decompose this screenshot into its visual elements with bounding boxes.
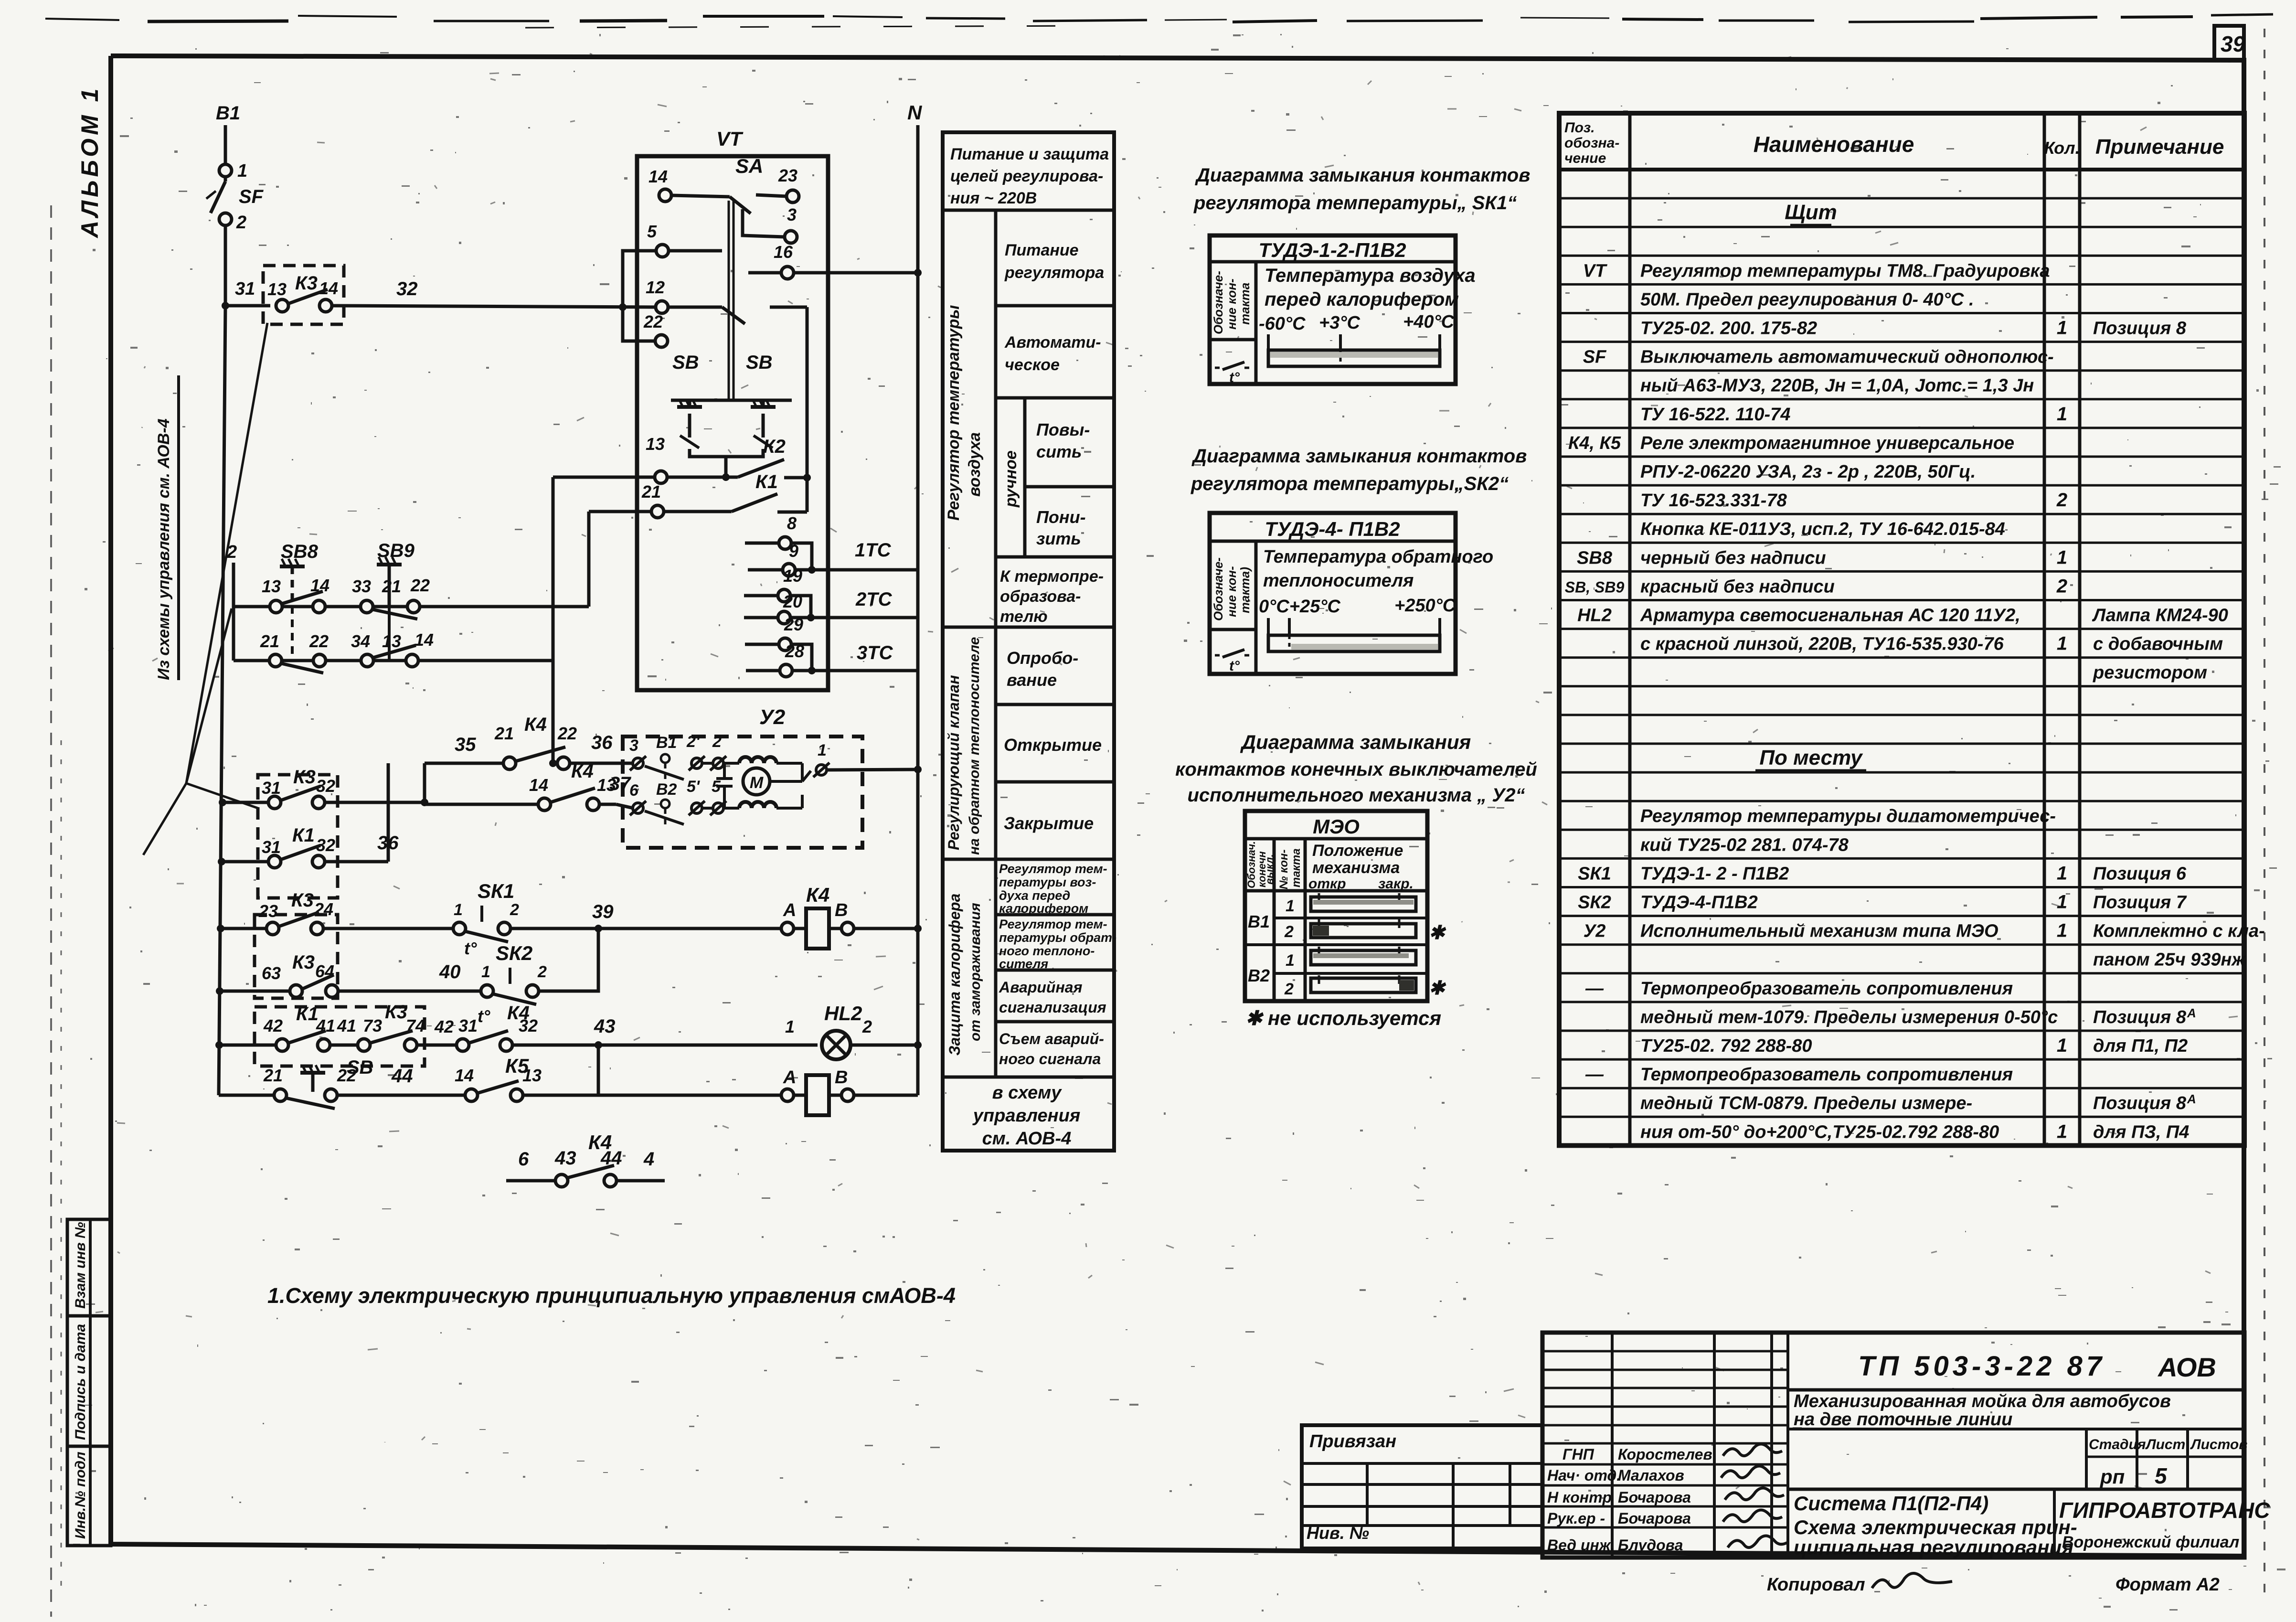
svg-text:К3: К3 — [385, 1002, 407, 1023]
wire left bus lower — [219, 306, 225, 1095]
svg-text:ТП 503-3-22 87: ТП 503-3-22 87 — [1858, 1351, 2105, 1382]
svg-text:В: В — [835, 900, 848, 920]
svg-text:А: А — [783, 900, 796, 920]
svg-text:для П1, П2: для П1, П2 — [2093, 1036, 2188, 1056]
svg-text:32: 32 — [396, 278, 418, 299]
svg-text:43: 43 — [554, 1148, 576, 1169]
svg-text:2ТС: 2ТС — [855, 589, 893, 610]
svg-text:чение: чение — [1564, 150, 1606, 166]
svg-text:21: 21 — [494, 724, 514, 743]
svg-text:К1: К1 — [292, 825, 315, 846]
svg-text:ния ~ 220В: ния ~ 220В — [950, 189, 1037, 207]
svg-text:VT: VT — [716, 128, 744, 150]
svg-text:5': 5' — [687, 778, 701, 796]
svg-text:Опробо-: Опробо- — [1007, 648, 1078, 668]
svg-text:5: 5 — [2155, 1463, 2168, 1488]
wire row K5 left — [219, 1094, 274, 1097]
svg-text:1: 1 — [454, 901, 463, 919]
svg-text:43: 43 — [594, 1016, 616, 1037]
capacitor — [716, 777, 733, 780]
svg-text:ГНП: ГНП — [1563, 1446, 1594, 1463]
svg-text:1: 1 — [237, 161, 247, 181]
svg-text:Система П1(П2-П4): Система П1(П2-П4) — [1794, 1492, 1988, 1515]
svg-text:✱ не используется: ✱ не используется — [1245, 1007, 1441, 1029]
svg-text:образова-: образова- — [1000, 587, 1081, 606]
MEO bar B1-1 — [1311, 897, 1416, 911]
relay K3 dashed enclosure top — [263, 266, 344, 324]
svg-text:Из схемы управления см. АОВ-4: Из схемы управления см. АОВ-4 — [155, 418, 173, 680]
svg-text:14: 14 — [415, 630, 434, 650]
wire row1 to node — [776, 762, 802, 765]
junction 32-12 — [619, 303, 627, 311]
svg-text:По месту: По месту — [1759, 746, 1863, 769]
svg-text:Автомати-: Автомати- — [1004, 333, 1101, 352]
svg-text:Съем аварий-: Съем аварий- — [999, 1030, 1104, 1047]
svg-text:откр: откр — [1308, 876, 1346, 892]
svg-text:Обозначе-: Обозначе- — [1211, 557, 1225, 621]
svg-text:—: — — [1585, 979, 1604, 999]
svg-text:SК1: SК1 — [1578, 864, 1611, 884]
svg-text:-60°С: -60°С — [1259, 314, 1306, 334]
svg-text:медный тем-1079. Пределы измер: медный тем-1079. Пределы измерения 0-50°… — [1640, 1007, 2058, 1027]
wire 16 to N — [748, 271, 781, 275]
svg-text:Механизированная мойка для а: Механизированная мойка для автобусов — [1794, 1391, 2171, 1411]
svg-text:1: 1 — [2057, 404, 2067, 425]
svg-text:ние кон-: ние кон- — [1224, 278, 1239, 330]
svg-text:Открытие: Открытие — [1004, 735, 1102, 755]
svg-text:39: 39 — [592, 901, 614, 922]
svg-text:Регулятор температуры ТМ8. Гра: Регулятор температуры ТМ8. Градуировка — [1640, 261, 2050, 281]
svg-text:63: 63 — [262, 963, 281, 983]
svg-text:Нач· отд.: Нач· отд. — [1547, 1467, 1621, 1484]
svg-text:3ТС: 3ТС — [857, 642, 893, 663]
svg-text:3: 3 — [787, 205, 797, 224]
svg-text:Лист: Лист — [2145, 1437, 2185, 1452]
SK2 closing bar — [1268, 635, 1440, 651]
svg-text:28: 28 — [785, 641, 804, 661]
svg-text:Лампа КМ24-90: Лампа КМ24-90 — [2092, 606, 2228, 626]
svg-text:К4, К5: К4, К5 — [1568, 433, 1621, 453]
svg-text:39: 39 — [2221, 32, 2245, 56]
wire 21 row — [589, 510, 651, 513]
regulator VT enclosure — [637, 156, 828, 690]
svg-text:N: N — [907, 101, 923, 124]
title block organization — [2053, 1489, 2056, 1558]
motor winding 2 — [739, 802, 776, 808]
svg-text:Питание: Питание — [1005, 241, 1079, 259]
signature scribbles — [1723, 1444, 1782, 1456]
svg-text:Диаграмма замыкания: Диаграмма замыкания — [1240, 731, 1471, 753]
svg-text:с красной линзой, 220В, ТУ1: с красной линзой, 220В, ТУ16-535.930-76 — [1640, 634, 2004, 654]
svg-text:73: 73 — [363, 1016, 382, 1035]
svg-text:Реле электромагнитное универс: Реле электромагнитное универсальное — [1640, 433, 2014, 453]
svg-text:Копировал: Копировал — [1767, 1575, 1865, 1595]
wire B1 drop — [224, 125, 227, 164]
svg-text:Коростелев: Коростелев — [1618, 1446, 1712, 1463]
svg-text:1.Схему электрическую принципи: 1.Схему электрическую принципиальную упр… — [267, 1283, 956, 1308]
wire 13 row — [553, 476, 655, 479]
svg-text:3: 3 — [629, 736, 638, 755]
svg-text:Регулирующий клапан: Регулирующий клапан — [945, 675, 962, 850]
svg-text:1: 1 — [1286, 951, 1295, 970]
svg-text:36: 36 — [591, 732, 613, 753]
svg-text:20: 20 — [783, 592, 802, 611]
svg-text:Диаграмма замыкания контактов: Диаграмма замыкания контактов — [1195, 165, 1530, 186]
svg-text:SВ: SВ — [746, 352, 773, 373]
svg-text:Примечание: Примечание — [2095, 135, 2224, 159]
svg-text:22: 22 — [557, 724, 577, 743]
svg-text:2: 2 — [2056, 576, 2067, 597]
motor winding 1 — [739, 757, 776, 763]
stamp column box: Взам инв № — [67, 1219, 111, 1316]
svg-text:1ТС: 1ТС — [855, 540, 892, 561]
svg-text:ТУДЭ-4- П1В2: ТУДЭ-4- П1В2 — [1265, 518, 1400, 540]
svg-text:ТУ 16-522. 110-74: ТУ 16-522. 110-74 — [1640, 405, 1790, 425]
svg-text:14: 14 — [529, 775, 548, 795]
wire 3 elbow — [743, 209, 785, 237]
SK1 contact symbol — [1215, 367, 1222, 369]
wire V1 riser — [552, 477, 555, 763]
component table row lines — [1559, 197, 2244, 200]
svg-text:SВ: SВ — [672, 352, 699, 373]
svg-text:Исполнительный механизм типа: Исполнительный механизм типа МЭО — [1640, 921, 1998, 941]
svg-text:К1: К1 — [755, 471, 778, 492]
svg-text:1: 1 — [2057, 892, 2067, 913]
svg-text:рп: рп — [2100, 1465, 2125, 1488]
svg-text:Закрытие: Закрытие — [1004, 813, 1094, 833]
MEO bar B2-2 — [1311, 978, 1416, 992]
relay K3 dashed enclosure B — [255, 915, 338, 998]
svg-text:воздуха: воздуха — [966, 432, 984, 497]
relay K3 dashed enclosure A — [258, 775, 338, 898]
svg-text:Выключатель автоматический одн: Выключатель автоматический однополюс- — [1640, 347, 2054, 367]
svg-text:42: 42 — [263, 1016, 283, 1035]
svg-text:13: 13 — [262, 576, 281, 596]
svg-text:Повы-: Повы- — [1036, 420, 1090, 439]
wire 28 3TC — [746, 669, 780, 672]
svg-text:духа перед: духа перед — [999, 888, 1070, 903]
svg-text:5: 5 — [712, 778, 721, 796]
svg-text:В1: В1 — [656, 734, 677, 752]
MEO reference dashes — [1318, 893, 1320, 902]
svg-text:регулятора: регулятора — [1004, 264, 1104, 282]
svg-text:t°: t° — [478, 1006, 490, 1026]
svg-text:для ПЗ, П4: для ПЗ, П4 — [2093, 1122, 2189, 1142]
svg-text:41: 41 — [337, 1016, 356, 1035]
svg-text:16: 16 — [774, 242, 793, 262]
contact B1 lever — [645, 766, 684, 779]
svg-text:SF: SF — [1583, 347, 1607, 367]
svg-text:перед калорифером: перед калорифером — [1265, 289, 1459, 310]
title block doc number — [1788, 1388, 2244, 1392]
svg-text:НL2: НL2 — [824, 1002, 862, 1024]
svg-text:23: 23 — [258, 901, 278, 921]
svg-text:Вед инж.: Вед инж. — [1547, 1537, 1615, 1554]
svg-text:К4: К4 — [806, 884, 829, 906]
wire 5 left elbow — [623, 251, 656, 341]
svg-text:контактов конечных выключателе: контактов конечных выключателей — [1175, 759, 1537, 780]
svg-text:1: 1 — [818, 741, 827, 759]
relay K1 dashed enclosure C — [255, 1007, 425, 1066]
wire U2 row1 — [702, 762, 713, 765]
svg-text:13: 13 — [522, 1066, 542, 1085]
svg-text:19: 19 — [783, 566, 802, 586]
svg-text:Формат А2: Формат А2 — [2115, 1575, 2220, 1595]
right scan streak — [2264, 29, 2265, 1595]
svg-text:НL2: НL2 — [1577, 606, 1612, 626]
svg-text:Положение: Положение — [1312, 842, 1403, 860]
wire 41 — [330, 1044, 358, 1047]
svg-text:М: М — [750, 774, 764, 792]
svg-text:Взам инв №: Взам инв № — [73, 1222, 88, 1309]
wire row SK1 left — [221, 927, 266, 930]
svg-text:Позиция 6: Позиция 6 — [2093, 864, 2187, 884]
svg-text:34: 34 — [351, 631, 370, 651]
wire SK2 riser to 39 — [539, 928, 598, 991]
svg-text:АОВ: АОВ — [2157, 1352, 2216, 1382]
svg-text:Позиция 7: Позиция 7 — [2093, 893, 2187, 913]
svg-text:целей регулирова-: целей регулирова- — [950, 167, 1103, 185]
svg-text:1: 1 — [2057, 863, 2067, 884]
svg-text:ческое: ческое — [1005, 356, 1060, 374]
svg-text:механизма: механизма — [1312, 859, 1400, 877]
svg-text:5: 5 — [647, 222, 657, 241]
svg-text:2: 2 — [510, 901, 519, 919]
svg-text:К3: К3 — [292, 952, 315, 973]
contact SB8 13-14 — [270, 600, 282, 613]
wire N bus — [916, 125, 920, 1095]
svg-text:выкл.: выкл. — [1264, 854, 1276, 885]
wire row HL2 left — [219, 1044, 276, 1047]
svg-text:Схема электрическая прин-: Схема электрическая прин- — [1794, 1516, 2077, 1538]
svg-text:44: 44 — [391, 1066, 413, 1087]
svg-text:Кол.: Кол. — [2044, 138, 2080, 158]
svg-text:31: 31 — [262, 778, 281, 798]
wire SA pole2 output — [770, 306, 807, 309]
svg-text:1: 1 — [2057, 547, 2067, 568]
contact 13-14 row2 — [361, 654, 373, 667]
svg-text:6: 6 — [518, 1149, 529, 1170]
wire 14-13 row — [425, 803, 538, 806]
svg-text:Стадия: Стадия — [2089, 1437, 2146, 1452]
svg-text:2: 2 — [226, 542, 237, 562]
wire U2 output to N — [827, 769, 918, 770]
wire row HL2 right — [512, 1044, 818, 1047]
svg-text:35: 35 — [455, 734, 476, 755]
svg-text:2': 2' — [686, 733, 701, 751]
svg-text:К3: К3 — [295, 273, 318, 294]
svg-text:ТУДЭ-1- 2 - П1В2: ТУДЭ-1- 2 - П1В2 — [1640, 864, 1789, 884]
wire motor to terminal 1 — [770, 780, 802, 783]
leader lines — [186, 323, 267, 783]
svg-text:сить: сить — [1036, 442, 1082, 461]
svg-text:1: 1 — [2057, 1035, 2067, 1056]
svg-text:ручное: ручное — [1002, 450, 1020, 508]
svg-text:Бочарова: Бочарова — [1618, 1510, 1691, 1527]
svg-text:ние кон-: ние кон- — [1224, 566, 1239, 617]
svg-text:ный А63-МУЗ, 220В, Jн = 1,0А: ный А63-МУЗ, 220В, Jн = 1,0А, Jотс.= 1,3… — [1640, 376, 2034, 396]
svg-text:см. АОВ-4: см. АОВ-4 — [982, 1129, 1072, 1149]
actuator U2 enclosure — [623, 736, 862, 848]
MEO row separators — [1274, 917, 1427, 919]
svg-text:У2: У2 — [1584, 921, 1606, 941]
svg-text:Температура обратного: Температура обратного — [1263, 547, 1493, 567]
svg-text:29: 29 — [784, 615, 803, 634]
svg-text:31: 31 — [458, 1016, 478, 1035]
svg-text:К4: К4 — [524, 714, 547, 735]
svg-text:SВ, SВ9: SВ, SВ9 — [1565, 578, 1625, 596]
svg-text:23: 23 — [778, 166, 797, 185]
svg-text:теплоносителя: теплоносителя — [1263, 571, 1414, 591]
svg-text:Арматура светосигнальная АС 1: Арматура светосигнальная АС 120 11У2, — [1640, 606, 2020, 626]
svg-text:6: 6 — [629, 781, 639, 800]
svg-text:1: 1 — [1286, 897, 1295, 915]
wire 5 right stub — [669, 249, 722, 253]
svg-text:Регулятор температуры дилатоме: Регулятор температуры дилатометричес- — [1640, 806, 2056, 826]
wire riser 43 — [597, 1045, 600, 1095]
svg-text:SК2: SК2 — [496, 942, 532, 964]
svg-text:паном 25ч 939нж: паном 25ч 939нж — [2093, 950, 2246, 970]
svg-text:калорифером: калорифером — [999, 901, 1088, 916]
svg-text:К4: К4 — [571, 761, 594, 782]
svg-text:31: 31 — [235, 279, 255, 299]
wire row SB8 — [234, 605, 589, 608]
diagram MEO table — [1245, 811, 1427, 1001]
svg-text:управления: управления — [972, 1106, 1080, 1126]
svg-text:SВ9: SВ9 — [377, 540, 415, 561]
svg-text:сигнализация: сигнализация — [999, 999, 1106, 1016]
svg-text:вание: вание — [1007, 670, 1057, 690]
svg-text:9: 9 — [789, 541, 798, 561]
svg-text:В2: В2 — [1248, 966, 1270, 985]
svg-text:VТ: VТ — [1583, 261, 1607, 281]
svg-text:B1: B1 — [216, 103, 240, 124]
svg-text:22: 22 — [643, 312, 663, 331]
svg-text:4: 4 — [643, 1149, 654, 1170]
svg-text:SВ8: SВ8 — [1577, 548, 1613, 568]
svg-text:2: 2 — [712, 733, 722, 751]
wire SB lower rail — [690, 449, 763, 457]
svg-text:+250°С: +250°С — [1394, 596, 1456, 616]
switch SF — [219, 164, 232, 177]
svg-text:Регулятор тем-: Регулятор тем- — [999, 862, 1107, 876]
svg-text:К1: К1 — [296, 1003, 319, 1024]
svg-text:Регулятор тем-: Регулятор тем- — [999, 917, 1107, 931]
junction 16-N — [914, 269, 922, 277]
component table frame — [1559, 113, 2244, 1145]
svg-text:33: 33 — [352, 576, 371, 596]
svg-text:Наименование: Наименование — [1754, 132, 1914, 157]
function column frame — [943, 132, 1114, 1151]
SK2 scale ticks — [1267, 618, 1270, 635]
svg-text:пературы обрат-: пературы обрат- — [999, 930, 1116, 945]
svg-text:13: 13 — [267, 279, 287, 299]
svg-text:SВ8: SВ8 — [281, 541, 319, 562]
wire row K5 right — [523, 1094, 781, 1097]
contact SB9 21-22 — [361, 600, 373, 613]
svg-text:№ кон-: № кон- — [1277, 850, 1290, 889]
svg-text:SF: SF — [239, 186, 264, 207]
svg-text:37: 37 — [609, 773, 631, 794]
svg-text:Температура воздуха: Температура воздуха — [1265, 265, 1476, 286]
svg-text:1: 1 — [2057, 318, 2067, 339]
svg-text:ципиальная регулирования: ципиальная регулирования — [1794, 1536, 2073, 1558]
diagram SK1 table — [1210, 235, 1456, 384]
svg-text:31: 31 — [262, 837, 281, 857]
title block signature grid — [1542, 1333, 2244, 1558]
svg-text:Комплектно с кла-: Комплектно с кла- — [2093, 921, 2265, 941]
title block left table — [1302, 1425, 1542, 1548]
svg-text:закр.: закр. — [1378, 876, 1414, 892]
svg-text:с добавочным: с добавочным — [2093, 634, 2223, 654]
svg-text:ного теплоно-: ного теплоно- — [999, 944, 1095, 958]
svg-text:Обозначе-: Обозначе- — [1211, 271, 1225, 334]
left scan streak — [50, 205, 52, 1617]
svg-text:регулятора температуры„SК2“: регулятора температуры„SК2“ — [1191, 473, 1509, 494]
svg-text:Листов: Листов — [2190, 1437, 2247, 1452]
svg-text:13: 13 — [646, 434, 665, 454]
SK2 contact symbol — [1215, 654, 1222, 657]
svg-text:40: 40 — [439, 961, 461, 982]
svg-text:1: 1 — [2057, 633, 2067, 654]
wire U2 row2 — [702, 807, 713, 810]
svg-text:от замораживания: от замораживания — [967, 903, 983, 1041]
svg-text:Рук.ер -: Рук.ер - — [1547, 1510, 1605, 1527]
wire 29 — [745, 643, 779, 646]
svg-text:телю: телю — [1000, 608, 1048, 626]
wire row D — [222, 860, 268, 864]
svg-text:13: 13 — [382, 631, 401, 651]
svg-text:Термопреобразователь сопротив: Термопреобразователь сопротивления — [1640, 1065, 2013, 1085]
svg-text:К3: К3 — [293, 767, 316, 788]
wire 23 stub — [756, 195, 787, 196]
svg-text:Позиция 8: Позиция 8 — [2093, 319, 2187, 339]
svg-text:—: — — [1585, 1065, 1604, 1085]
wire V2 riser — [587, 512, 591, 607]
svg-text:ния от-50° до+200°С,ТУ25-02.79: ния от-50° до+200°С,ТУ25-02.792 288-80 — [1640, 1122, 1999, 1142]
svg-text:ТУ 16-523.331-78: ТУ 16-523.331-78 — [1640, 491, 1787, 511]
svg-text:1: 1 — [785, 1017, 795, 1036]
svg-text:МЭО: МЭО — [1313, 815, 1360, 838]
svg-text:регулятора температуры„ SК1“: регулятора температуры„ SК1“ — [1193, 192, 1517, 213]
SA mechanical link — [728, 201, 730, 401]
svg-text:2: 2 — [236, 213, 246, 233]
svg-text:21: 21 — [260, 631, 279, 651]
svg-text:такта: такта — [1290, 848, 1303, 887]
wire 14 to SA — [671, 195, 730, 197]
SK1 closing bar — [1268, 350, 1440, 366]
wire drop to K2 row — [724, 457, 728, 477]
svg-text:медный ТСМ-0879. Пределы изме: медный ТСМ-0879. Пределы измере- — [1640, 1093, 1972, 1113]
svg-text:1: 1 — [2057, 920, 2067, 941]
svg-text:Позиция 8: Позиция 8 — [2093, 1007, 2187, 1027]
title block stage header — [2085, 1429, 2088, 1489]
svg-text:21: 21 — [641, 482, 661, 502]
svg-text:14: 14 — [648, 167, 668, 186]
svg-text:А: А — [2187, 1092, 2196, 1106]
svg-text:Регулятор температуры: Регулятор температуры — [945, 305, 963, 521]
wire left bus upper — [224, 226, 227, 306]
svg-text:14: 14 — [319, 278, 338, 298]
svg-text:АЛЬБОМ 1: АЛЬБОМ 1 — [76, 85, 103, 239]
svg-text:Защита калорифера: Защита калорифера — [946, 894, 963, 1056]
svg-text:SК1: SК1 — [478, 880, 514, 902]
svg-text:Нив. №: Нив. № — [1307, 1523, 1369, 1543]
svg-text:21: 21 — [382, 576, 401, 596]
svg-text:24: 24 — [314, 899, 333, 919]
push buttons rail — [671, 399, 792, 402]
svg-text:Привязан: Привязан — [1309, 1431, 1396, 1451]
